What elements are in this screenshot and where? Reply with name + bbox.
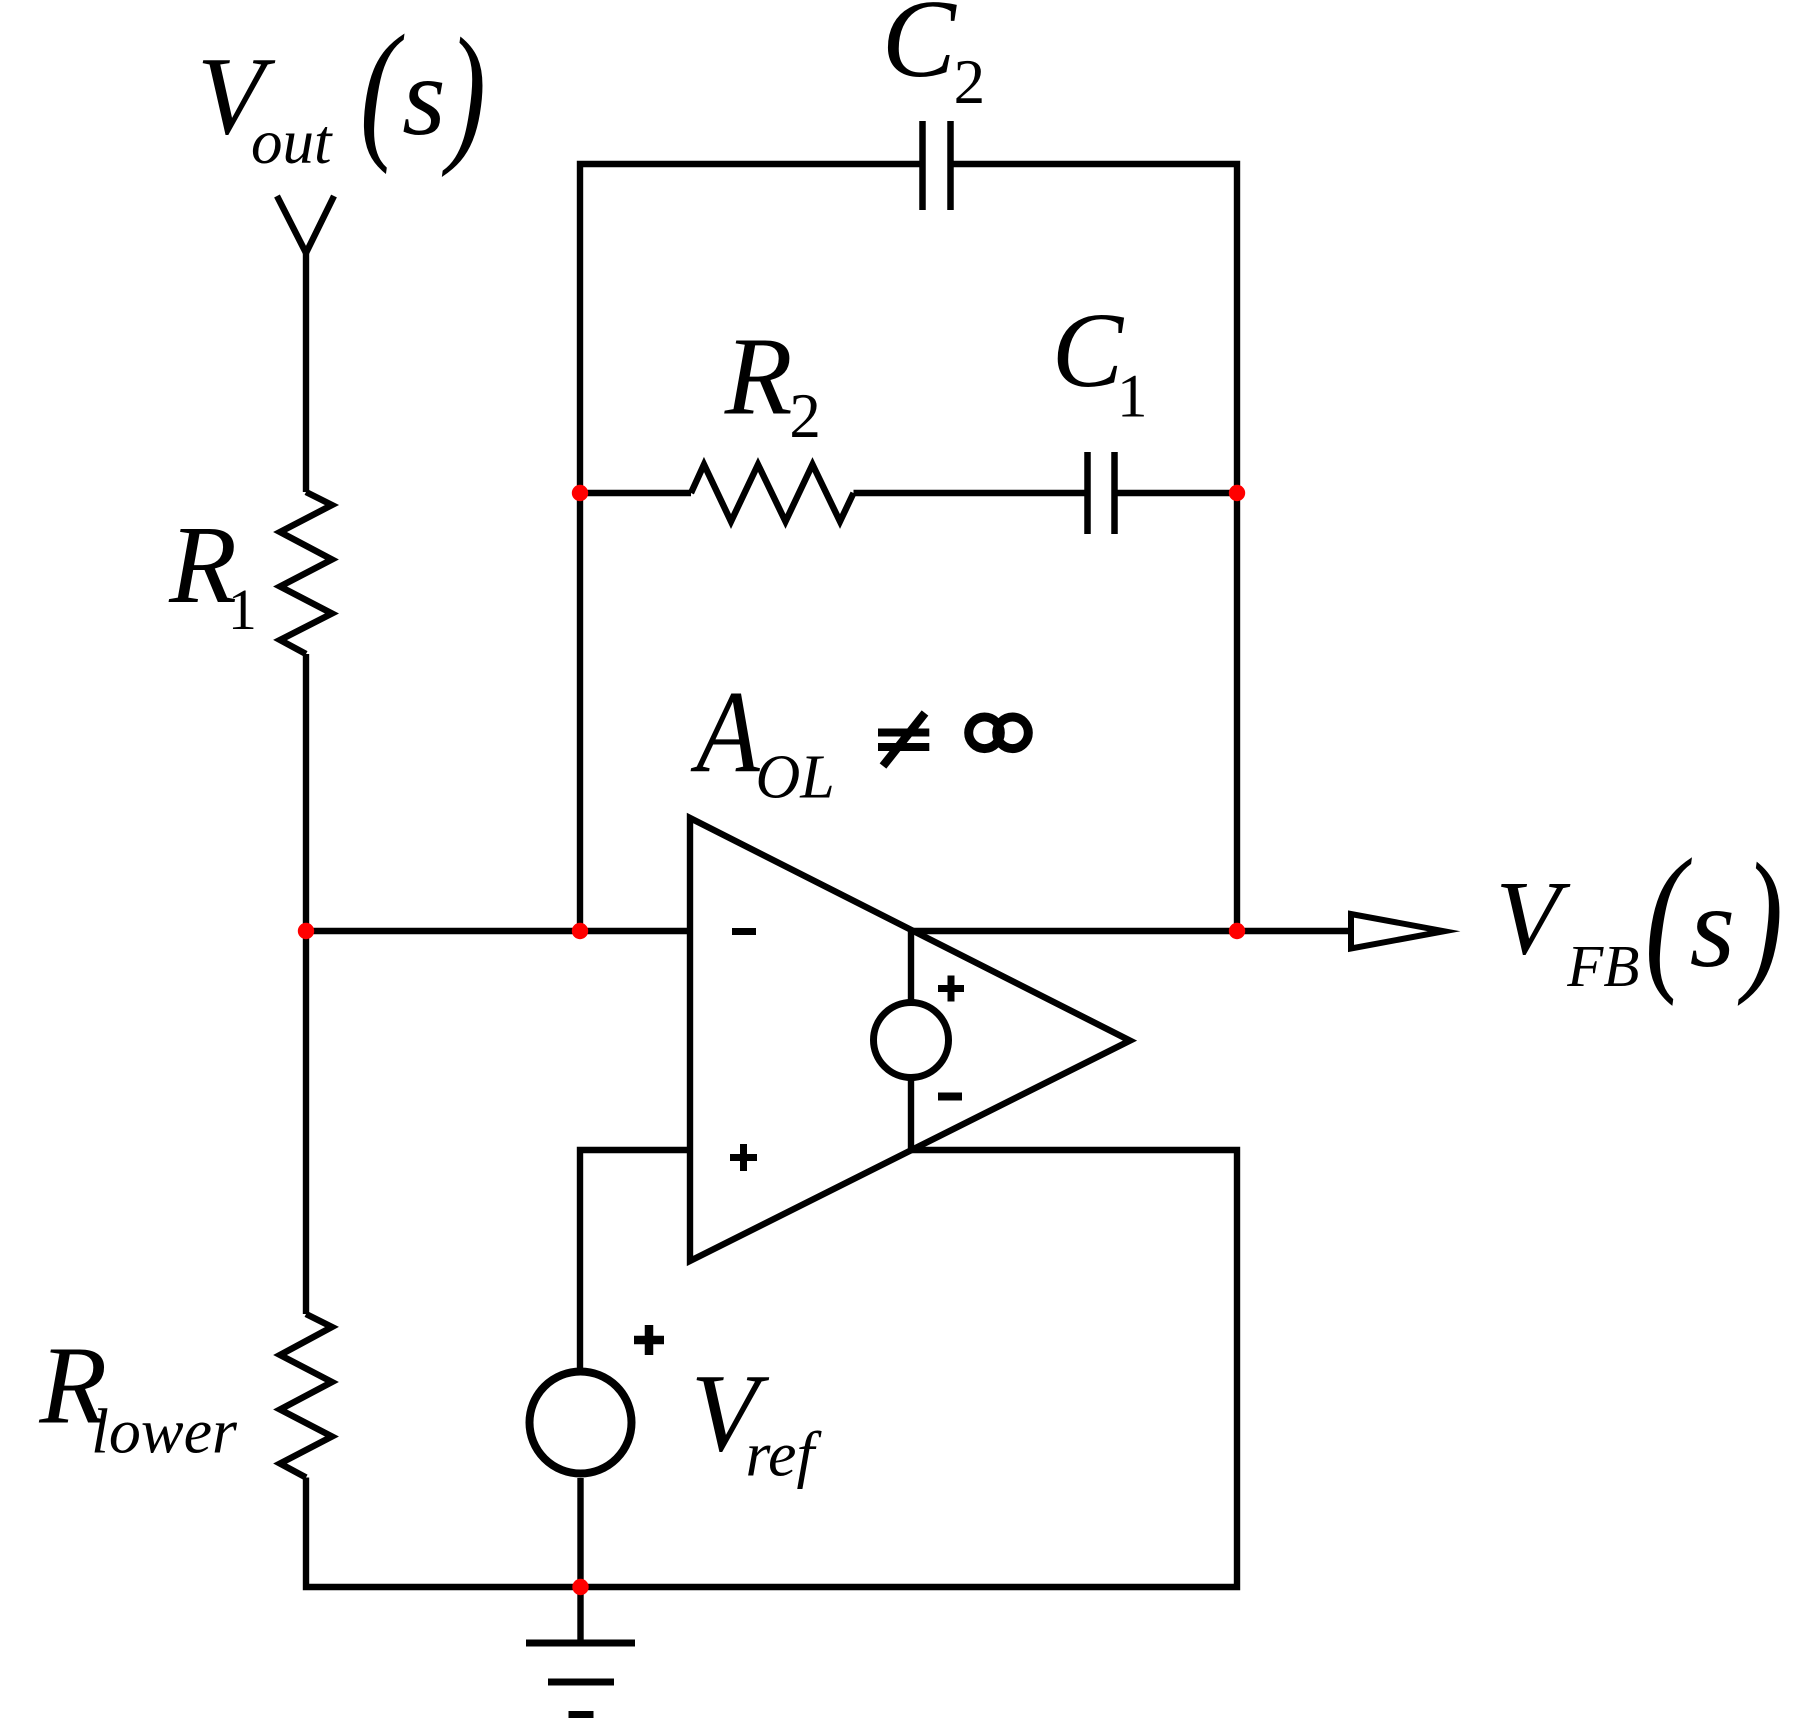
svg-text:V: V	[1496, 860, 1571, 977]
svg-text:1: 1	[228, 577, 257, 642]
svg-text:2: 2	[954, 47, 986, 117]
svg-text:OL: OL	[756, 744, 835, 812]
svg-text:2: 2	[789, 381, 821, 451]
svg-text:(: (	[360, 3, 405, 175]
svg-text:(: (	[1645, 826, 1693, 1007]
svg-text:): )	[1737, 832, 1783, 1007]
svg-text:R: R	[168, 504, 237, 627]
svg-text:FB: FB	[1566, 933, 1639, 999]
svg-text:s: s	[1690, 863, 1736, 992]
svg-text:lower: lower	[91, 1395, 238, 1466]
svg-text:C: C	[882, 0, 958, 101]
svg-text:A: A	[690, 667, 761, 798]
svg-text:s: s	[402, 35, 446, 159]
svg-text:1: 1	[1117, 364, 1148, 431]
svg-text:C: C	[1052, 292, 1125, 410]
svg-text:): )	[441, 6, 486, 178]
svg-text:out: out	[251, 107, 333, 177]
svg-text:ref: ref	[746, 1419, 823, 1490]
svg-text:R: R	[724, 316, 793, 439]
